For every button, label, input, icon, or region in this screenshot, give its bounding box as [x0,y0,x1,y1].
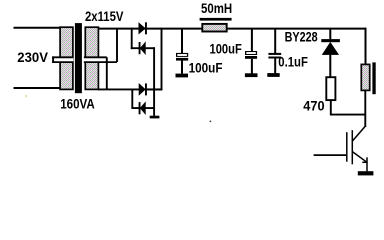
diode D1 (series in top bus, pointing right) [139,22,147,34]
capacitor C1 100uF [176,29,189,78]
wire: load bottom to collector [364,90,366,127]
wire: AC1 top bus [98,28,367,30]
ground bar (emitter) [358,171,374,175]
wire: D2 row [131,47,155,49]
wire: AC2 drop to D4 [131,89,133,109]
stray dot artifact [210,121,212,123]
svg-text:0.1uF: 0.1uF [278,54,308,69]
wire: lower secondary inner terminal up to AC1 bus [116,29,118,63]
wire: R1 bottom to collector node [331,100,366,115]
inductor L1 50mH core bar [200,18,232,21]
svg-text:230V: 230V [17,50,48,65]
ground bar (bridge negative) [150,116,160,119]
primary series link bracket [52,56,73,63]
wire: D4 row [131,107,154,109]
secondary winding taps [84,57,117,62]
diode D2 (pointing left) [139,42,146,54]
capacitor C3 0.1uF [267,29,281,77]
wire: 230V bottom lead to primary winding [14,87,62,89]
wire: AC1 drop to D2 [131,28,133,49]
wire: +bus drop to D3 [161,28,163,91]
inductor L2 load coil body [361,64,369,90]
transformer T1 secondary winding [84,27,100,89]
svg-text:160VA: 160VA [60,97,95,112]
wire: 230V top lead to primary winding [14,27,62,29]
wire: D2/D4 vertical to ground [153,47,155,116]
stray yellow artifact [26,95,27,98]
wire: bus right corner down to load [365,28,367,65]
resistor R1 470 [326,77,335,100]
svg-text:50mH: 50mH [201,1,232,16]
wire: AC2 line to rectifier [98,88,162,90]
diode D3 (pointing right) [139,83,147,95]
inductor L1 50mH body [202,24,226,32]
diode D5 BY228 [321,29,340,78]
svg-text:100uF: 100uF [210,41,242,56]
svg-text:BY228: BY228 [285,30,318,45]
transformer T1 primary winding [52,27,73,89]
diode D4 (pointing left) [139,102,146,114]
svg-text:2x115V: 2x115V [85,9,124,24]
wire: upper secondary inner terminal down to AC2 [106,57,108,89]
svg-text:470: 470 [303,99,324,114]
inductor L2 core bar [372,62,375,94]
svg-text:100uF: 100uF [189,60,223,75]
transformer T1 core [75,23,82,93]
wire: D3 cathode to +bus drop [147,88,163,90]
capacitor C2 100uF [245,29,258,78]
transistor Q1 IGBT [314,127,367,172]
